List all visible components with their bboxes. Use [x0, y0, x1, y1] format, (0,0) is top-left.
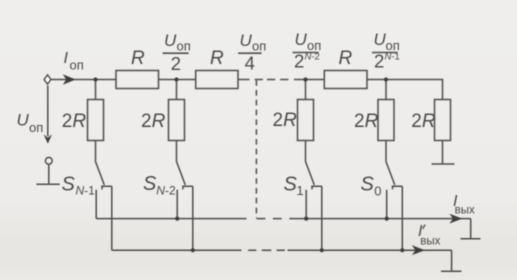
svg-text:4: 4: [245, 52, 255, 73]
svg-text:N-1: N-1: [76, 183, 96, 197]
svg-text:вых: вых: [420, 236, 440, 248]
svg-text:S: S: [143, 173, 157, 195]
svg-text:2R: 2R: [141, 111, 166, 132]
svg-text:вых: вых: [455, 205, 475, 217]
svg-text:R: R: [131, 48, 145, 69]
svg-text:2R: 2R: [411, 111, 436, 132]
svg-text:оп: оп: [177, 39, 191, 54]
svg-text:R: R: [210, 48, 224, 69]
svg-text:2: 2: [374, 51, 384, 72]
svg-text:S: S: [284, 174, 298, 196]
svg-text:S: S: [62, 174, 76, 196]
svg-text:U: U: [17, 111, 30, 130]
svg-text:0: 0: [374, 184, 381, 199]
svg-text:1: 1: [296, 183, 303, 198]
svg-text:2: 2: [294, 51, 304, 72]
svg-text:U: U: [164, 31, 177, 50]
svg-text:2R: 2R: [354, 111, 379, 132]
svg-text:оп: оп: [70, 57, 84, 72]
svg-text:S: S: [361, 174, 375, 196]
svg-text:U: U: [240, 31, 253, 50]
svg-text:I: I: [64, 50, 69, 67]
svg-text:оп: оп: [29, 120, 43, 135]
svg-text:2R: 2R: [273, 110, 298, 131]
svg-text:2: 2: [171, 53, 181, 74]
svg-text:N-1: N-1: [385, 52, 400, 63]
svg-text:U: U: [295, 30, 308, 49]
svg-text:N-2: N-2: [305, 52, 320, 63]
svg-text:N-2: N-2: [156, 184, 176, 198]
svg-text:R: R: [339, 48, 353, 69]
svg-text:2R: 2R: [62, 111, 87, 132]
svg-text:оп: оп: [252, 39, 266, 54]
